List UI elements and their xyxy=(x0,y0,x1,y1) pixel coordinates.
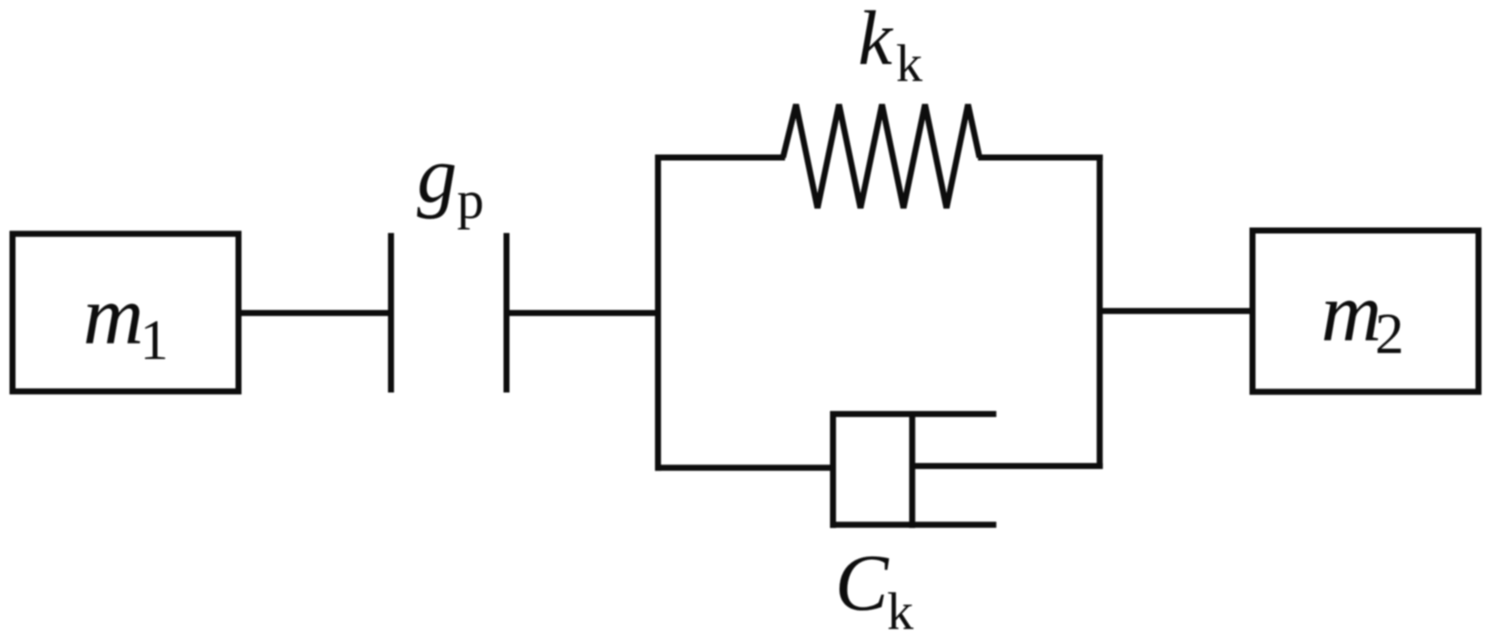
wire gap to parallel block xyxy=(507,310,662,316)
svg-text:k: k xyxy=(887,583,914,639)
damper piston xyxy=(909,411,915,528)
svg-text:g: g xyxy=(417,132,457,220)
wire parallel block to m2 xyxy=(1100,308,1253,314)
label Ck xyxy=(835,540,914,639)
wire m1 to gap xyxy=(239,310,392,316)
wire top right horizontal xyxy=(978,155,1103,161)
label gp xyxy=(417,132,484,230)
gap plate left xyxy=(388,233,394,393)
wire top left horizontal xyxy=(655,155,785,161)
label m2 xyxy=(1321,266,1404,366)
svg-text:1: 1 xyxy=(140,309,169,372)
svg-text:C: C xyxy=(835,540,890,628)
damper Ck cylinder left wall xyxy=(830,411,836,528)
svg-text:m: m xyxy=(83,269,144,362)
svg-text:k: k xyxy=(896,35,923,93)
mass m2 xyxy=(1253,231,1479,392)
damper cylinder top xyxy=(830,411,996,417)
node left vertical of parallel block xyxy=(655,155,661,471)
damper piston rod xyxy=(912,463,1102,469)
svg-text:m: m xyxy=(1321,266,1382,359)
label m1 xyxy=(83,269,169,372)
node right vertical of parallel block xyxy=(1097,155,1103,470)
mass m1 xyxy=(13,234,239,392)
wire bottom left to damper xyxy=(655,465,834,471)
svg-text:k: k xyxy=(858,0,894,81)
spring kk xyxy=(783,105,980,209)
damper cylinder bottom xyxy=(830,522,996,528)
svg-text:2: 2 xyxy=(1375,301,1404,366)
gap plate right xyxy=(504,233,510,393)
label kk xyxy=(858,0,923,93)
svg-text:p: p xyxy=(457,170,484,230)
